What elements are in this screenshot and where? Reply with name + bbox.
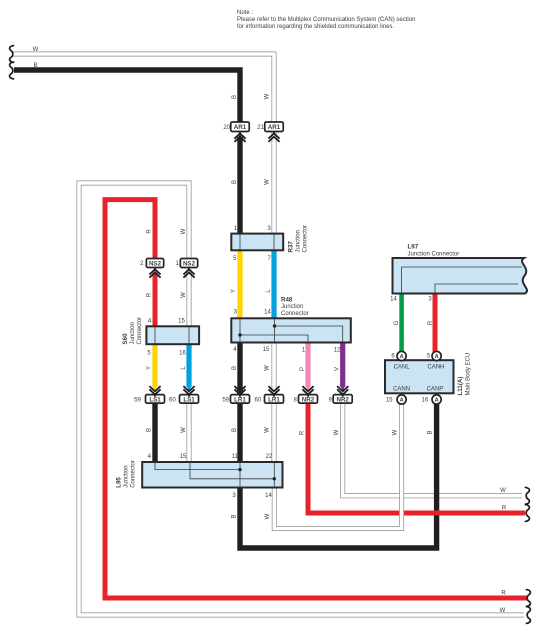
svg-text:Junction: Junction bbox=[296, 230, 302, 252]
svg-text:R: R bbox=[300, 430, 306, 435]
svg-text:W: W bbox=[265, 513, 271, 519]
svg-text:1: 1 bbox=[302, 348, 306, 354]
svg-text:R: R bbox=[428, 320, 434, 325]
svg-text:LR1: LR1 bbox=[234, 396, 246, 403]
svg-text:R: R bbox=[147, 292, 153, 297]
svg-text:W: W bbox=[33, 47, 39, 53]
svg-text:Y: Y bbox=[231, 289, 237, 293]
svg-text:3: 3 bbox=[428, 297, 432, 303]
svg-text:6: 6 bbox=[391, 354, 395, 360]
svg-text:4: 4 bbox=[148, 319, 152, 325]
svg-text:A: A bbox=[435, 398, 439, 404]
svg-text:59: 59 bbox=[222, 398, 229, 404]
svg-text:22: 22 bbox=[266, 454, 273, 460]
svg-text:14: 14 bbox=[264, 310, 271, 316]
svg-text:60: 60 bbox=[169, 398, 176, 404]
svg-text:L: L bbox=[266, 289, 272, 293]
svg-text:B: B bbox=[232, 428, 238, 432]
svg-text:Connector: Connector bbox=[137, 317, 143, 345]
svg-text:Junction: Junction bbox=[281, 304, 303, 310]
svg-text:1: 1 bbox=[234, 226, 238, 232]
svg-text:B: B bbox=[147, 428, 153, 432]
svg-text:L11(A): L11(A) bbox=[457, 377, 464, 396]
svg-text:Y: Y bbox=[147, 366, 153, 370]
svg-text:4: 4 bbox=[148, 454, 152, 460]
svg-text:NR2: NR2 bbox=[337, 396, 350, 403]
svg-text:Junction Connector: Junction Connector bbox=[408, 252, 460, 258]
svg-text:Main Body ECU: Main Body ECU bbox=[466, 353, 472, 396]
svg-text:3: 3 bbox=[232, 493, 236, 499]
svg-text:A: A bbox=[435, 354, 439, 360]
svg-text:NS2: NS2 bbox=[183, 260, 196, 267]
svg-text:Connector: Connector bbox=[131, 460, 137, 488]
svg-text:AR1: AR1 bbox=[268, 124, 281, 131]
svg-text:W: W bbox=[181, 427, 187, 433]
svg-text:16: 16 bbox=[422, 398, 429, 404]
svg-text:14: 14 bbox=[265, 493, 272, 499]
svg-text:3: 3 bbox=[267, 226, 271, 232]
svg-text:20: 20 bbox=[223, 125, 230, 131]
svg-text:A: A bbox=[400, 354, 404, 360]
svg-text:S60: S60 bbox=[122, 333, 129, 345]
svg-text:CANL: CANL bbox=[394, 365, 411, 371]
svg-text:15: 15 bbox=[263, 347, 270, 353]
svg-text:P: P bbox=[300, 367, 306, 371]
svg-text:15: 15 bbox=[178, 319, 185, 325]
svg-text:LS1: LS1 bbox=[149, 396, 161, 403]
svg-text:W: W bbox=[181, 292, 187, 298]
svg-text:Junction: Junction bbox=[130, 322, 136, 344]
svg-text:B: B bbox=[232, 366, 238, 370]
svg-text:16: 16 bbox=[179, 351, 186, 357]
svg-text:5: 5 bbox=[147, 351, 151, 357]
svg-text:A: A bbox=[400, 398, 404, 404]
svg-text:14: 14 bbox=[390, 297, 397, 303]
svg-text:W: W bbox=[334, 429, 340, 435]
svg-text:2: 2 bbox=[140, 261, 144, 267]
svg-text:LS1: LS1 bbox=[183, 396, 195, 403]
svg-text:L95: L95 bbox=[116, 477, 123, 488]
svg-text:W: W bbox=[500, 608, 506, 614]
svg-text:4: 4 bbox=[233, 347, 237, 353]
svg-text:R48: R48 bbox=[281, 297, 293, 304]
svg-text:5: 5 bbox=[427, 354, 431, 360]
svg-text:11: 11 bbox=[232, 454, 239, 460]
svg-text:CANH: CANH bbox=[427, 365, 444, 371]
svg-text:B: B bbox=[428, 430, 434, 434]
svg-text:Connector: Connector bbox=[303, 225, 309, 253]
svg-text:B: B bbox=[33, 63, 37, 69]
svg-text:Junction: Junction bbox=[124, 465, 130, 487]
svg-text:B: B bbox=[232, 180, 238, 184]
svg-text:W: W bbox=[265, 365, 271, 371]
svg-text:Connector: Connector bbox=[281, 311, 309, 317]
svg-text:R37: R37 bbox=[288, 241, 295, 253]
svg-text:W: W bbox=[181, 228, 187, 234]
svg-text:L: L bbox=[181, 366, 187, 370]
svg-text:60: 60 bbox=[255, 398, 262, 404]
svg-text:21: 21 bbox=[257, 125, 264, 131]
svg-text:9: 9 bbox=[329, 398, 333, 404]
svg-text:R: R bbox=[502, 505, 507, 511]
svg-text:15: 15 bbox=[386, 398, 393, 404]
svg-text:12: 12 bbox=[334, 348, 341, 354]
svg-text:W: W bbox=[265, 179, 271, 185]
svg-text:CANN: CANN bbox=[393, 387, 410, 393]
svg-text:R: R bbox=[147, 229, 153, 234]
svg-text:B: B bbox=[232, 514, 238, 518]
svg-text:59: 59 bbox=[134, 398, 141, 404]
svg-text:Note :: Note : bbox=[237, 10, 253, 16]
svg-text:Please refer to the Multiplex: Please refer to the Multiplex Communicat… bbox=[237, 17, 415, 23]
svg-text:L97: L97 bbox=[408, 244, 419, 251]
svg-text:W: W bbox=[265, 427, 271, 433]
svg-text:W: W bbox=[393, 429, 399, 435]
svg-text:B: B bbox=[232, 95, 238, 99]
svg-text:5: 5 bbox=[233, 256, 237, 262]
svg-text:for information regarding the: for information regarding the shielded c… bbox=[237, 24, 394, 30]
svg-text:8: 8 bbox=[294, 398, 298, 404]
svg-text:NS2: NS2 bbox=[149, 260, 162, 267]
svg-text:1: 1 bbox=[176, 261, 180, 267]
svg-text:3: 3 bbox=[234, 310, 238, 316]
svg-text:W: W bbox=[500, 488, 506, 494]
svg-text:G: G bbox=[394, 320, 400, 325]
svg-text:V: V bbox=[335, 367, 341, 371]
svg-text:AR1: AR1 bbox=[234, 124, 247, 131]
svg-text:LR1: LR1 bbox=[268, 396, 280, 403]
svg-text:CANP: CANP bbox=[427, 387, 444, 393]
svg-text:NR2: NR2 bbox=[302, 396, 315, 403]
svg-text:7: 7 bbox=[268, 256, 272, 262]
svg-text:15: 15 bbox=[180, 454, 187, 460]
svg-text:W: W bbox=[265, 93, 271, 99]
svg-text:R: R bbox=[501, 590, 506, 596]
